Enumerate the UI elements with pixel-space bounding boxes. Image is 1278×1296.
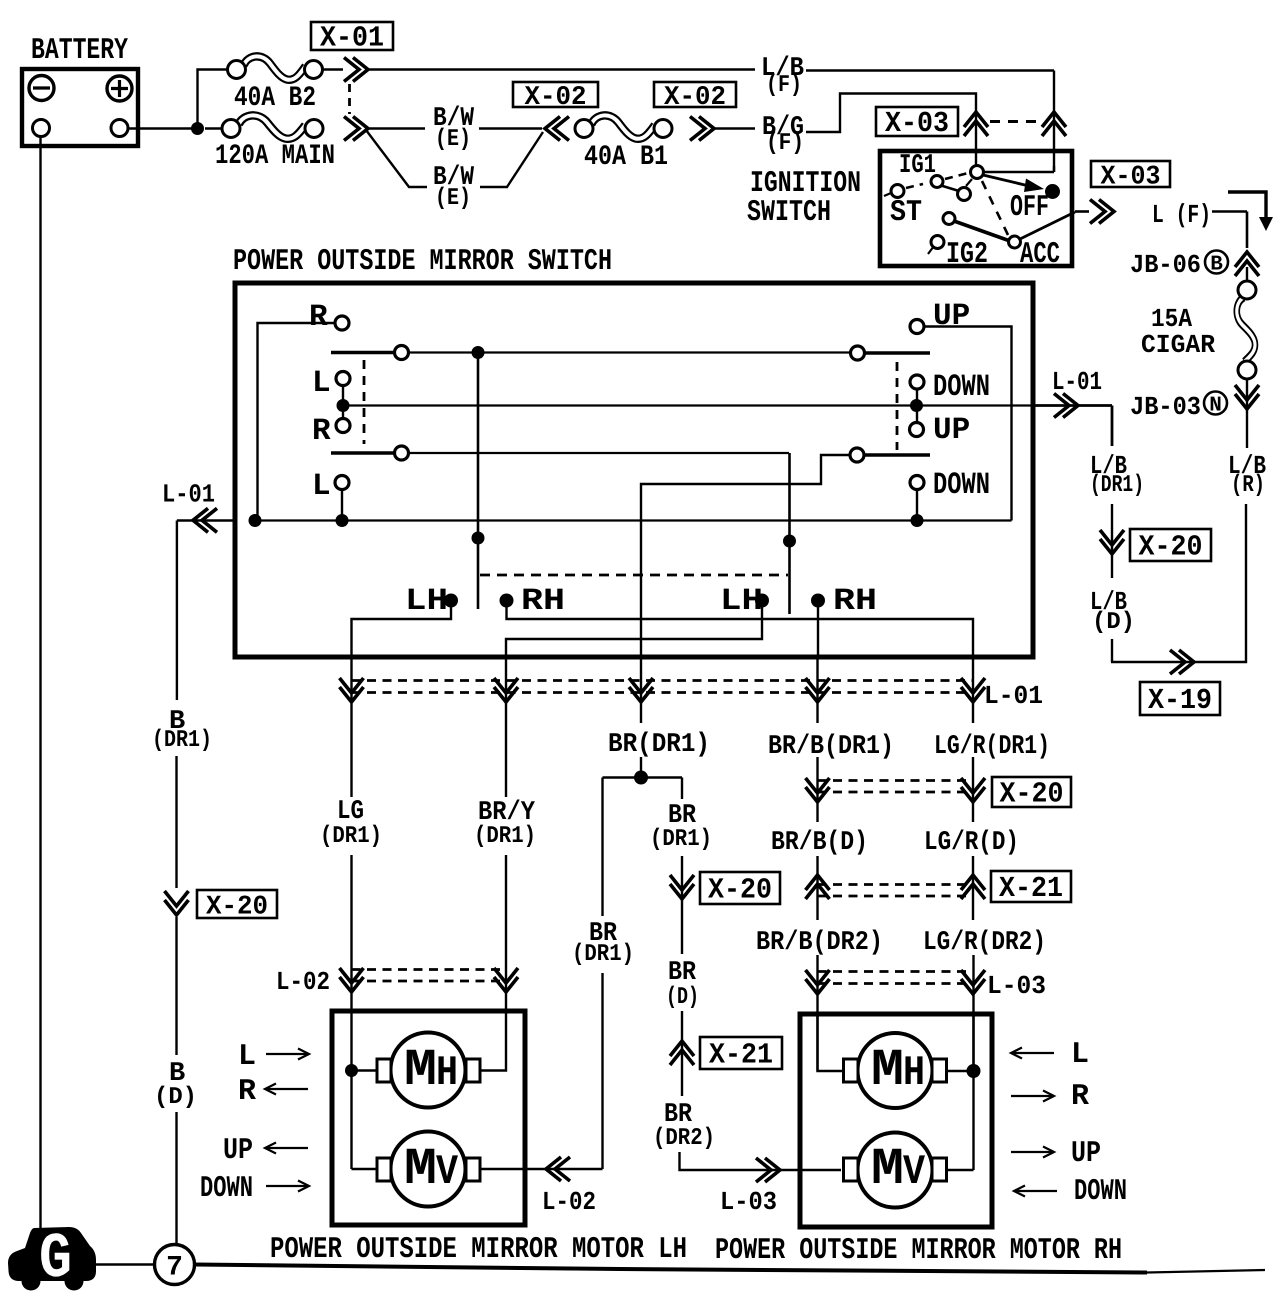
fuse 15A CIGAR [1246, 267, 1248, 282]
wire LG/R column [972, 657, 974, 723]
circled N [1204, 392, 1227, 415]
svg-text:LG/R(D): LG/R(D) [924, 828, 1019, 858]
svg-text:BR(DR1): BR(DR1) [608, 730, 710, 760]
wire BR/B (D) [816, 856, 818, 920]
wire BR/Y column [505, 657, 507, 797]
node main junction [191, 122, 204, 135]
svg-text:N: N [1209, 395, 1222, 418]
connector X-21 chevrons BR/B [806, 875, 830, 899]
svg-text:POWER OUTSIDE MIRROR SWITCH: POWER OUTSIDE MIRROR SWITCH [233, 245, 612, 279]
wire L/B (F) to ignition switch [369, 68, 755, 70]
connector X-20 chevrons center [670, 875, 694, 899]
connector X-20 dashed ties right [818, 779, 974, 782]
ignition ACC contact [1009, 236, 1021, 248]
svg-text:(E): (E) [435, 126, 471, 153]
connector X-03 output chevrons [1090, 200, 1114, 224]
svg-text:M: M [871, 1041, 904, 1100]
svg-text:DOWN: DOWN [200, 1172, 253, 1206]
svg-text:POWER OUTSIDE MIRROR MOTOR RH: POWER OUTSIDE MIRROR MOTOR RH [715, 1234, 1122, 1268]
continuation arrow top right [1228, 192, 1266, 219]
connector L-03 dashed ties [818, 970, 974, 973]
wire LG/R (DR2) [972, 955, 974, 1071]
svg-text:X-20: X-20 [206, 893, 268, 923]
wire LG/R (DR1) [972, 757, 974, 822]
wire BR/Y inside LH motor [479, 1009, 506, 1071]
arrow R out of RH motor [1011, 1095, 1054, 1097]
svg-text:R: R [238, 1075, 256, 1109]
svg-text:IG1: IG1 [899, 151, 936, 181]
wire BR/B (DR1) [816, 757, 818, 822]
svg-text:L (F): L (F) [1152, 200, 1211, 230]
connector X-03 chevron on L/B wire [1042, 112, 1066, 136]
ignition wire IG1 to mid [941, 186, 959, 192]
svg-text:X-03: X-03 [1101, 163, 1161, 193]
wire MV LH to BR (DR1) [480, 1168, 603, 1170]
connector L-03 chevrons to RH motor [756, 1158, 780, 1182]
svg-text:LG/R(DR1): LG/R(DR1) [934, 732, 1050, 762]
svg-text:UP: UP [1071, 1137, 1101, 1171]
svg-text:(E): (E) [435, 185, 471, 212]
switch right contact jog to BR wire [641, 455, 849, 657]
svg-text:BATTERY: BATTERY [31, 34, 128, 68]
svg-text:(D): (D) [1092, 609, 1135, 636]
connector X-20 chevrons right column [1100, 530, 1124, 554]
wire BR column [640, 657, 642, 723]
connector L-03 chevrons BR/B [806, 970, 830, 994]
ground symbol G car body [8, 1227, 96, 1281]
svg-text:40A B2: 40A B2 [234, 83, 316, 114]
connector X-03 output label box [1091, 161, 1170, 187]
connector X-03 dashed link [990, 120, 1040, 123]
svg-text:OFF: OFF [1010, 191, 1049, 225]
wire ground riser from battery negative [39, 137, 41, 1232]
connector chevrons BR/Y [494, 678, 518, 702]
ignition mid contact [958, 188, 971, 201]
ignition rotor arm with arrowhead [983, 175, 1027, 186]
svg-text:BR/B(D): BR/B(D) [771, 828, 868, 858]
switch second contact bar [331, 451, 394, 455]
svg-text:H: H [436, 1049, 458, 1097]
svg-text:L: L [238, 1040, 256, 1074]
svg-text:X-21: X-21 [709, 1039, 773, 1072]
arrow UP out of RH motor [1011, 1151, 1054, 1153]
svg-text:(DR1): (DR1) [320, 823, 382, 850]
svg-text:L-01: L-01 [984, 681, 1043, 711]
connector X-21 dashed ties [818, 883, 974, 886]
svg-text:V: V [903, 1148, 926, 1196]
ignition OFF position dot [1045, 184, 1060, 199]
wire BR/Y (DR1) into LH motor [505, 855, 507, 1009]
switch wiper dashed tie [480, 574, 788, 577]
svg-text:IG2: IG2 [946, 238, 988, 272]
svg-text:(DR1): (DR1) [650, 826, 712, 853]
svg-text:JB-03: JB-03 [1130, 392, 1201, 422]
connector JB-03 N chevrons [1246, 379, 1248, 414]
ground connector 7 [155, 1245, 195, 1285]
wire L/B drop to ignition switch [1053, 100, 1055, 172]
svg-text:UP: UP [933, 413, 970, 448]
battery negative terminal [29, 76, 54, 101]
connector X-20 chevrons BR/B [806, 778, 830, 802]
ignition ST contact [891, 185, 904, 198]
wire ground to connector 7 [96, 1263, 155, 1266]
svg-text:BR/B(DR1): BR/B(DR1) [768, 732, 894, 762]
wire LG inside LH motor [350, 1009, 352, 1169]
connector X-21 chevrons center [670, 1041, 694, 1065]
svg-text:L: L [312, 366, 331, 401]
connector X-20 label box center [700, 872, 780, 904]
wire RH2 to BR/B exit [817, 606, 819, 657]
node BR branch [634, 771, 648, 785]
svg-text:CIGAR: CIGAR [1141, 330, 1215, 360]
connector X-02 label box right [654, 82, 736, 107]
connector X-19 label box [1140, 682, 1220, 715]
ignition IG2 contact upper [943, 213, 955, 225]
svg-text:(D): (D) [666, 984, 699, 1011]
connector L-01 chevrons [1054, 394, 1078, 418]
connector X-03 label box [876, 107, 958, 136]
svg-text:X-01: X-01 [320, 22, 384, 55]
connector JB-06 B chevrons [1235, 252, 1259, 276]
svg-text:ST: ST [890, 196, 922, 230]
svg-text:B: B [1210, 254, 1223, 277]
wire B/W (E) upper [369, 127, 425, 129]
connector X-02 label box left [513, 82, 598, 107]
svg-text:DOWN: DOWN [1074, 1175, 1127, 1209]
connector chevrons LG [340, 678, 364, 702]
power outside mirror motor LH box [332, 1011, 525, 1225]
wire BR (DR1) left branch down [601, 778, 603, 917]
svg-text:L-03: L-03 [720, 1187, 777, 1217]
svg-text:X-21: X-21 [999, 872, 1063, 905]
svg-text:(DR1): (DR1) [1090, 472, 1144, 499]
svg-text:RH: RH [521, 584, 565, 619]
svg-text:POWER OUTSIDE MIRROR MOTOR LH: POWER OUTSIDE MIRROR MOTOR LH [270, 1233, 687, 1267]
ignition pivot contact [971, 166, 984, 179]
connector X-01 chevrons main [344, 117, 368, 141]
svg-text:RH: RH [833, 584, 877, 619]
motor MV LH [391, 1132, 466, 1207]
wire BR/B inside RH motor [818, 1012, 845, 1071]
wire fuse B2 to X-01 [323, 68, 344, 70]
wire LG/R inside RH motor [972, 1012, 974, 1170]
switch right wiper [788, 453, 791, 614]
ignition switch U1 box [880, 151, 1072, 266]
svg-text:SWITCH: SWITCH [747, 196, 831, 230]
connector L-02 dashed ties [352, 968, 507, 971]
arrow L into RH motor [1011, 1052, 1054, 1054]
connector X-20 chevrons ground wire [165, 891, 189, 915]
svg-text:M: M [871, 1140, 904, 1199]
wire switch middle output line [343, 404, 1033, 406]
motor MH RH [858, 1033, 933, 1108]
ignition IG2 contact lower [931, 236, 944, 249]
svg-text:X-02: X-02 [525, 83, 587, 113]
circled B [1205, 251, 1228, 274]
connector row under switch - dashed ties [352, 679, 974, 682]
svg-text:L-01: L-01 [162, 480, 215, 510]
fuse 120A MAIN [205, 127, 223, 129]
svg-text:L-03: L-03 [987, 971, 1046, 1001]
connector X-02 chevrons right [690, 117, 714, 141]
svg-text:R: R [312, 414, 331, 449]
ignition wire ACC to output [1020, 212, 1075, 239]
connector X-19 chevron [1170, 650, 1194, 674]
svg-text:BR/B(DR2): BR/B(DR2) [756, 928, 883, 958]
svg-text:X-20: X-20 [1139, 531, 1203, 564]
wire BR to branch node [640, 757, 642, 771]
svg-text:X-20: X-20 [708, 874, 772, 907]
svg-text:R: R [1071, 1080, 1089, 1114]
connector X-03 chevron on B/G wire [964, 112, 988, 136]
connector L-02 chevrons LG [340, 968, 364, 992]
svg-text:(DR1): (DR1) [152, 727, 212, 754]
svg-text:7: 7 [166, 1253, 183, 1284]
wire BR/B (DR2) [816, 955, 818, 1071]
svg-text:L-02: L-02 [276, 967, 330, 997]
connector X-20 label box far right [992, 777, 1071, 807]
svg-text:(DR1): (DR1) [572, 941, 634, 968]
fuse 40A B2 [228, 56, 323, 79]
wire B (DR1) ground branch [176, 521, 178, 701]
svg-text:LH: LH [405, 584, 448, 619]
svg-text:X-03: X-03 [885, 107, 949, 140]
connector X-02 chevrons left [545, 117, 569, 141]
connector X-01 chevrons top [344, 58, 368, 82]
wire L/B into pivot [1053, 166, 1055, 172]
wire BR (DR1) right branch [681, 778, 683, 800]
svg-text:(F): (F) [766, 130, 804, 157]
svg-text:L-02: L-02 [542, 1187, 596, 1217]
power outside mirror motor RH box [800, 1014, 992, 1227]
connector chevrons BR [629, 678, 653, 702]
svg-text:UP: UP [223, 1134, 253, 1168]
connector L-02 chevrons MV LH [546, 1157, 570, 1181]
svg-text:DOWN: DOWN [933, 468, 990, 503]
wire ignition output L(F) [1075, 210, 1089, 213]
switch bottom bus line [255, 519, 1012, 521]
connector X-21 chevrons LG/R [961, 875, 985, 899]
wire B/G (F) to ignition switch [715, 127, 755, 129]
svg-text:G: G [39, 1224, 72, 1296]
svg-text:L: L [1071, 1038, 1089, 1072]
wire LG/R (D) [972, 856, 974, 920]
connector X-01 dashed link [348, 84, 351, 114]
svg-text:LG/R(DR2): LG/R(DR2) [923, 928, 1046, 958]
svg-text:M: M [404, 1041, 437, 1100]
svg-text:L: L [312, 469, 331, 504]
svg-text:UP: UP [933, 299, 970, 334]
connector X-20 chevrons LG/R [961, 778, 985, 802]
svg-text:(DR2): (DR2) [653, 1125, 715, 1152]
ignition IG1 contact [931, 176, 943, 188]
svg-text:(R): (R) [1231, 472, 1265, 499]
wire LH1 to LG exit [352, 606, 452, 657]
connector X-21 label box center [700, 1037, 782, 1069]
svg-text:ACC: ACC [1020, 238, 1060, 272]
wire junction up to fuse B2 [198, 70, 228, 129]
power outside mirror switch box [235, 283, 1033, 657]
svg-text:V: V [436, 1148, 459, 1196]
wire L-01 from switch to door [1033, 404, 1112, 407]
switch top contact bar [331, 351, 394, 355]
svg-text:R: R [309, 300, 328, 335]
wire LG column [350, 657, 352, 797]
connector X-21 label box right [991, 871, 1071, 902]
connector L-01 chevrons left [193, 508, 217, 532]
svg-text:X-19: X-19 [1148, 684, 1212, 717]
connector chevrons LG/R with L-01 label [961, 678, 985, 702]
battery positive terminal [107, 76, 132, 101]
ignition dashed linkages [906, 184, 923, 188]
arrow DOWN into RH motor [1014, 1190, 1057, 1192]
svg-text:40A B1: 40A B1 [584, 142, 668, 173]
fuse 40A B1 [575, 115, 672, 138]
wire LG (DR1) into LH motor [350, 855, 352, 1009]
switch dashed linkage right [896, 362, 899, 450]
wire RH1 to LG/R exit [507, 606, 974, 657]
motor MV RH [858, 1133, 933, 1208]
switch left wiper [477, 353, 480, 610]
svg-text:(D): (D) [154, 1084, 197, 1111]
ignition wire IG2 to ACC [954, 221, 1010, 241]
svg-text:120A MAIN: 120A MAIN [215, 141, 335, 172]
wire ground bus bottom [195, 1265, 1148, 1273]
wire BR/B column [816, 657, 818, 723]
connector X-20 label box right [1130, 529, 1211, 561]
svg-text:X-20: X-20 [1000, 778, 1064, 811]
connector X-01 label box [311, 22, 393, 50]
svg-text:X-02: X-02 [664, 83, 726, 113]
svg-text:H: H [903, 1049, 925, 1097]
svg-text:JB-06: JB-06 [1130, 250, 1201, 280]
svg-text:(DR1): (DR1) [474, 823, 536, 850]
svg-text:(F): (F) [766, 72, 802, 99]
svg-text:L-01: L-01 [1052, 367, 1102, 397]
battery lower terminals [33, 120, 50, 137]
wire B/W (E) lower [366, 130, 427, 187]
connector L-03 chevrons LG/R [961, 970, 985, 994]
svg-text:M: M [404, 1140, 437, 1199]
switch dashed linkage left [363, 360, 366, 444]
connector L-02 chevrons BR/Y [494, 968, 518, 992]
svg-text:DOWN: DOWN [933, 370, 990, 405]
wire LH2 to BR/Y exit [506, 606, 762, 657]
connector X-20 label box left [197, 890, 277, 918]
wire battery to junction [128, 127, 198, 129]
wire L/B (R) [1246, 414, 1248, 448]
connector chevrons BR/B [806, 678, 830, 702]
node wiper top junction [472, 346, 485, 359]
motor MH LH [391, 1033, 466, 1108]
wire L-01 exit from switch bottom bus [177, 519, 235, 521]
